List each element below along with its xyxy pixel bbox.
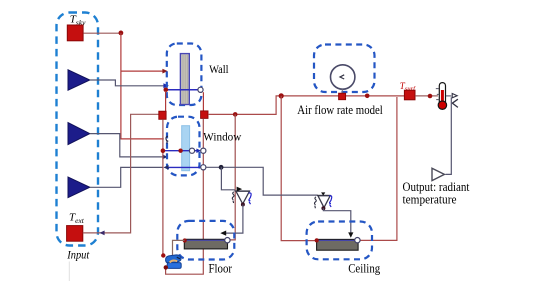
svg-text:Floor: Floor <box>209 262 233 276</box>
wire sensor1 to floor bar <box>220 205 243 236</box>
label Floor <box>209 262 233 276</box>
wire down to output triangle <box>446 97 452 174</box>
sensor S1 triangle <box>232 187 251 205</box>
wire window line2 blue <box>163 165 200 170</box>
wire window line1 <box>163 149 201 154</box>
svg-text:Window: Window <box>203 129 241 143</box>
wire left vertical (left junction down to floor icon) <box>162 119 164 254</box>
node icon top-left dot <box>161 253 165 257</box>
wire clock to square <box>341 89 343 93</box>
port ceiling bar right circle <box>355 238 360 243</box>
label Window <box>203 129 241 143</box>
wire wall-left dot to left junction square <box>165 91 167 111</box>
node icon bottom-left dot <box>164 265 168 269</box>
wire node A down to window pin <box>121 33 164 139</box>
node air-loop mid dot <box>365 94 370 99</box>
port marker chevron <box>452 99 458 107</box>
block T_surf square <box>404 90 415 100</box>
port window line1 circle2 <box>201 148 206 153</box>
pin glyph window upper-left <box>166 136 168 143</box>
label Air flow rate model <box>297 103 383 117</box>
wire floor bar to icon <box>173 240 185 255</box>
node before thermometer dot <box>428 94 433 99</box>
block Window dashed box <box>167 117 200 176</box>
node window line1 left dot <box>161 148 166 153</box>
wire node A to Wall red input <box>121 69 168 74</box>
gain Tr3 <box>68 177 90 198</box>
svg-text:Input: Input <box>66 247 89 261</box>
wire T_surf to thermometer <box>415 95 438 97</box>
wire T_sky to node A <box>83 32 121 34</box>
wire gain Tr2 to Window input <box>90 134 168 160</box>
block Ceiling dashed box <box>307 222 372 260</box>
node ceiling bar left dot <box>315 238 319 242</box>
wire mid vertical from W_b dot to floor bar circle <box>229 114 235 239</box>
label Input <box>66 247 89 261</box>
node window bar-left dot <box>178 149 182 153</box>
source block T_sky <box>67 25 83 41</box>
wire right vertical (right junction down, floor bottom return) <box>166 119 204 275</box>
svg-text:temperature: temperature <box>403 192 457 206</box>
component floor slab bar <box>184 239 227 249</box>
wire air-loop left edge down to ceiling line <box>281 96 316 241</box>
label T_ext <box>69 212 85 226</box>
sensor S2 triangle <box>314 192 331 208</box>
node W_b mid dot <box>233 112 238 117</box>
wire right junction to air-loop (W_b) <box>208 96 404 115</box>
gain Tr1 <box>68 70 90 90</box>
node A junction dot <box>119 31 124 36</box>
gain Tr2 <box>68 123 90 145</box>
clock block circle <box>331 65 355 89</box>
wire junction down to sensor1 <box>221 167 235 190</box>
port wall-right circle <box>198 87 203 92</box>
wire window line2 to sensors <box>205 167 317 195</box>
wire T_surf down to ceiling line <box>359 97 397 240</box>
wire T_ext to left wall node (W_a) <box>83 114 159 235</box>
thermometer sensor <box>436 83 447 110</box>
label T_surf <box>400 81 416 93</box>
label Output: radiant temperature <box>403 180 470 207</box>
block Clock dashed box <box>314 45 375 93</box>
svg-text:Air flow rate model: Air flow rate model <box>297 103 383 117</box>
wire sensor2 to ceiling bar <box>323 208 353 238</box>
svg-text:Wall: Wall <box>209 62 229 76</box>
node sensor2 bottom dot <box>321 206 325 210</box>
node floor bar left dot <box>183 238 187 242</box>
node line2 junction dot <box>219 165 224 170</box>
component window glass bar <box>182 126 190 171</box>
wire gain Tr1 to Wall blue input <box>90 80 169 88</box>
label Wall <box>209 62 229 76</box>
port window line2 circle <box>201 165 206 170</box>
faint page line <box>68 262 70 281</box>
node air-loop corner dot <box>279 93 284 98</box>
svg-text:Ceiling: Ceiling <box>348 262 381 276</box>
floor source icon (blue) <box>166 255 182 269</box>
source block T_ext <box>67 226 83 242</box>
junction block right (below Wall) <box>201 111 208 119</box>
port window line1 circle1 <box>189 148 194 153</box>
block Wall dashed box <box>167 44 202 106</box>
junction block left (below Wall) <box>159 111 166 119</box>
port floor bar right circle <box>225 238 230 243</box>
wire thermometer to output corner <box>446 94 457 98</box>
component ceiling slab bar <box>317 239 359 250</box>
node wall-left dot <box>164 88 169 93</box>
wire wall blue crossing line <box>166 89 198 91</box>
block Input dashed subsystem box <box>57 13 99 246</box>
label Ceiling <box>348 262 381 276</box>
wire gain Tr3 up to Window line2 <box>90 167 163 187</box>
component wall layer bar <box>180 54 189 105</box>
junction block below clock <box>339 93 346 100</box>
output gain triangle <box>432 168 444 180</box>
label T_sky <box>70 14 86 28</box>
node sensor1 bottom dot <box>241 203 245 207</box>
block Floor dashed box <box>177 221 234 260</box>
wire wall-right circle to right junction square <box>202 92 204 111</box>
